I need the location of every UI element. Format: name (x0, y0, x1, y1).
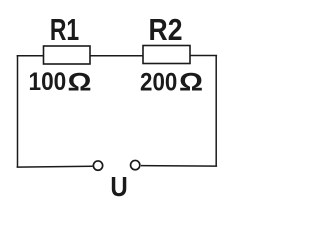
terminal circle (left, node of U) (93, 161, 102, 170)
terminal circle (right, node of U) (131, 160, 140, 169)
svg-text:Ω: Ω (179, 68, 203, 96)
resistor R2 body (143, 46, 190, 64)
resistor R1 body (44, 46, 91, 64)
wire: between R1 and R2 (90, 55, 143, 57)
svg-text:U: U (110, 173, 127, 203)
wire: top-left segment to resistor R1 (17, 55, 44, 57)
svg-text:Ω: Ω (67, 68, 91, 96)
wire: bottom-right segment to terminal (141, 165, 217, 168)
wire: left vertical side (17, 56, 19, 167)
wire: bottom-left segment to terminal (17, 165, 93, 168)
svg-text:200: 200 (140, 69, 177, 96)
wire: right vertical side (215, 56, 217, 167)
svg-text:100: 100 (28, 68, 66, 96)
svg-text:R1: R1 (50, 12, 79, 47)
svg-text:R2: R2 (149, 13, 183, 47)
wire: top-right segment from R2 to corner (190, 55, 217, 57)
